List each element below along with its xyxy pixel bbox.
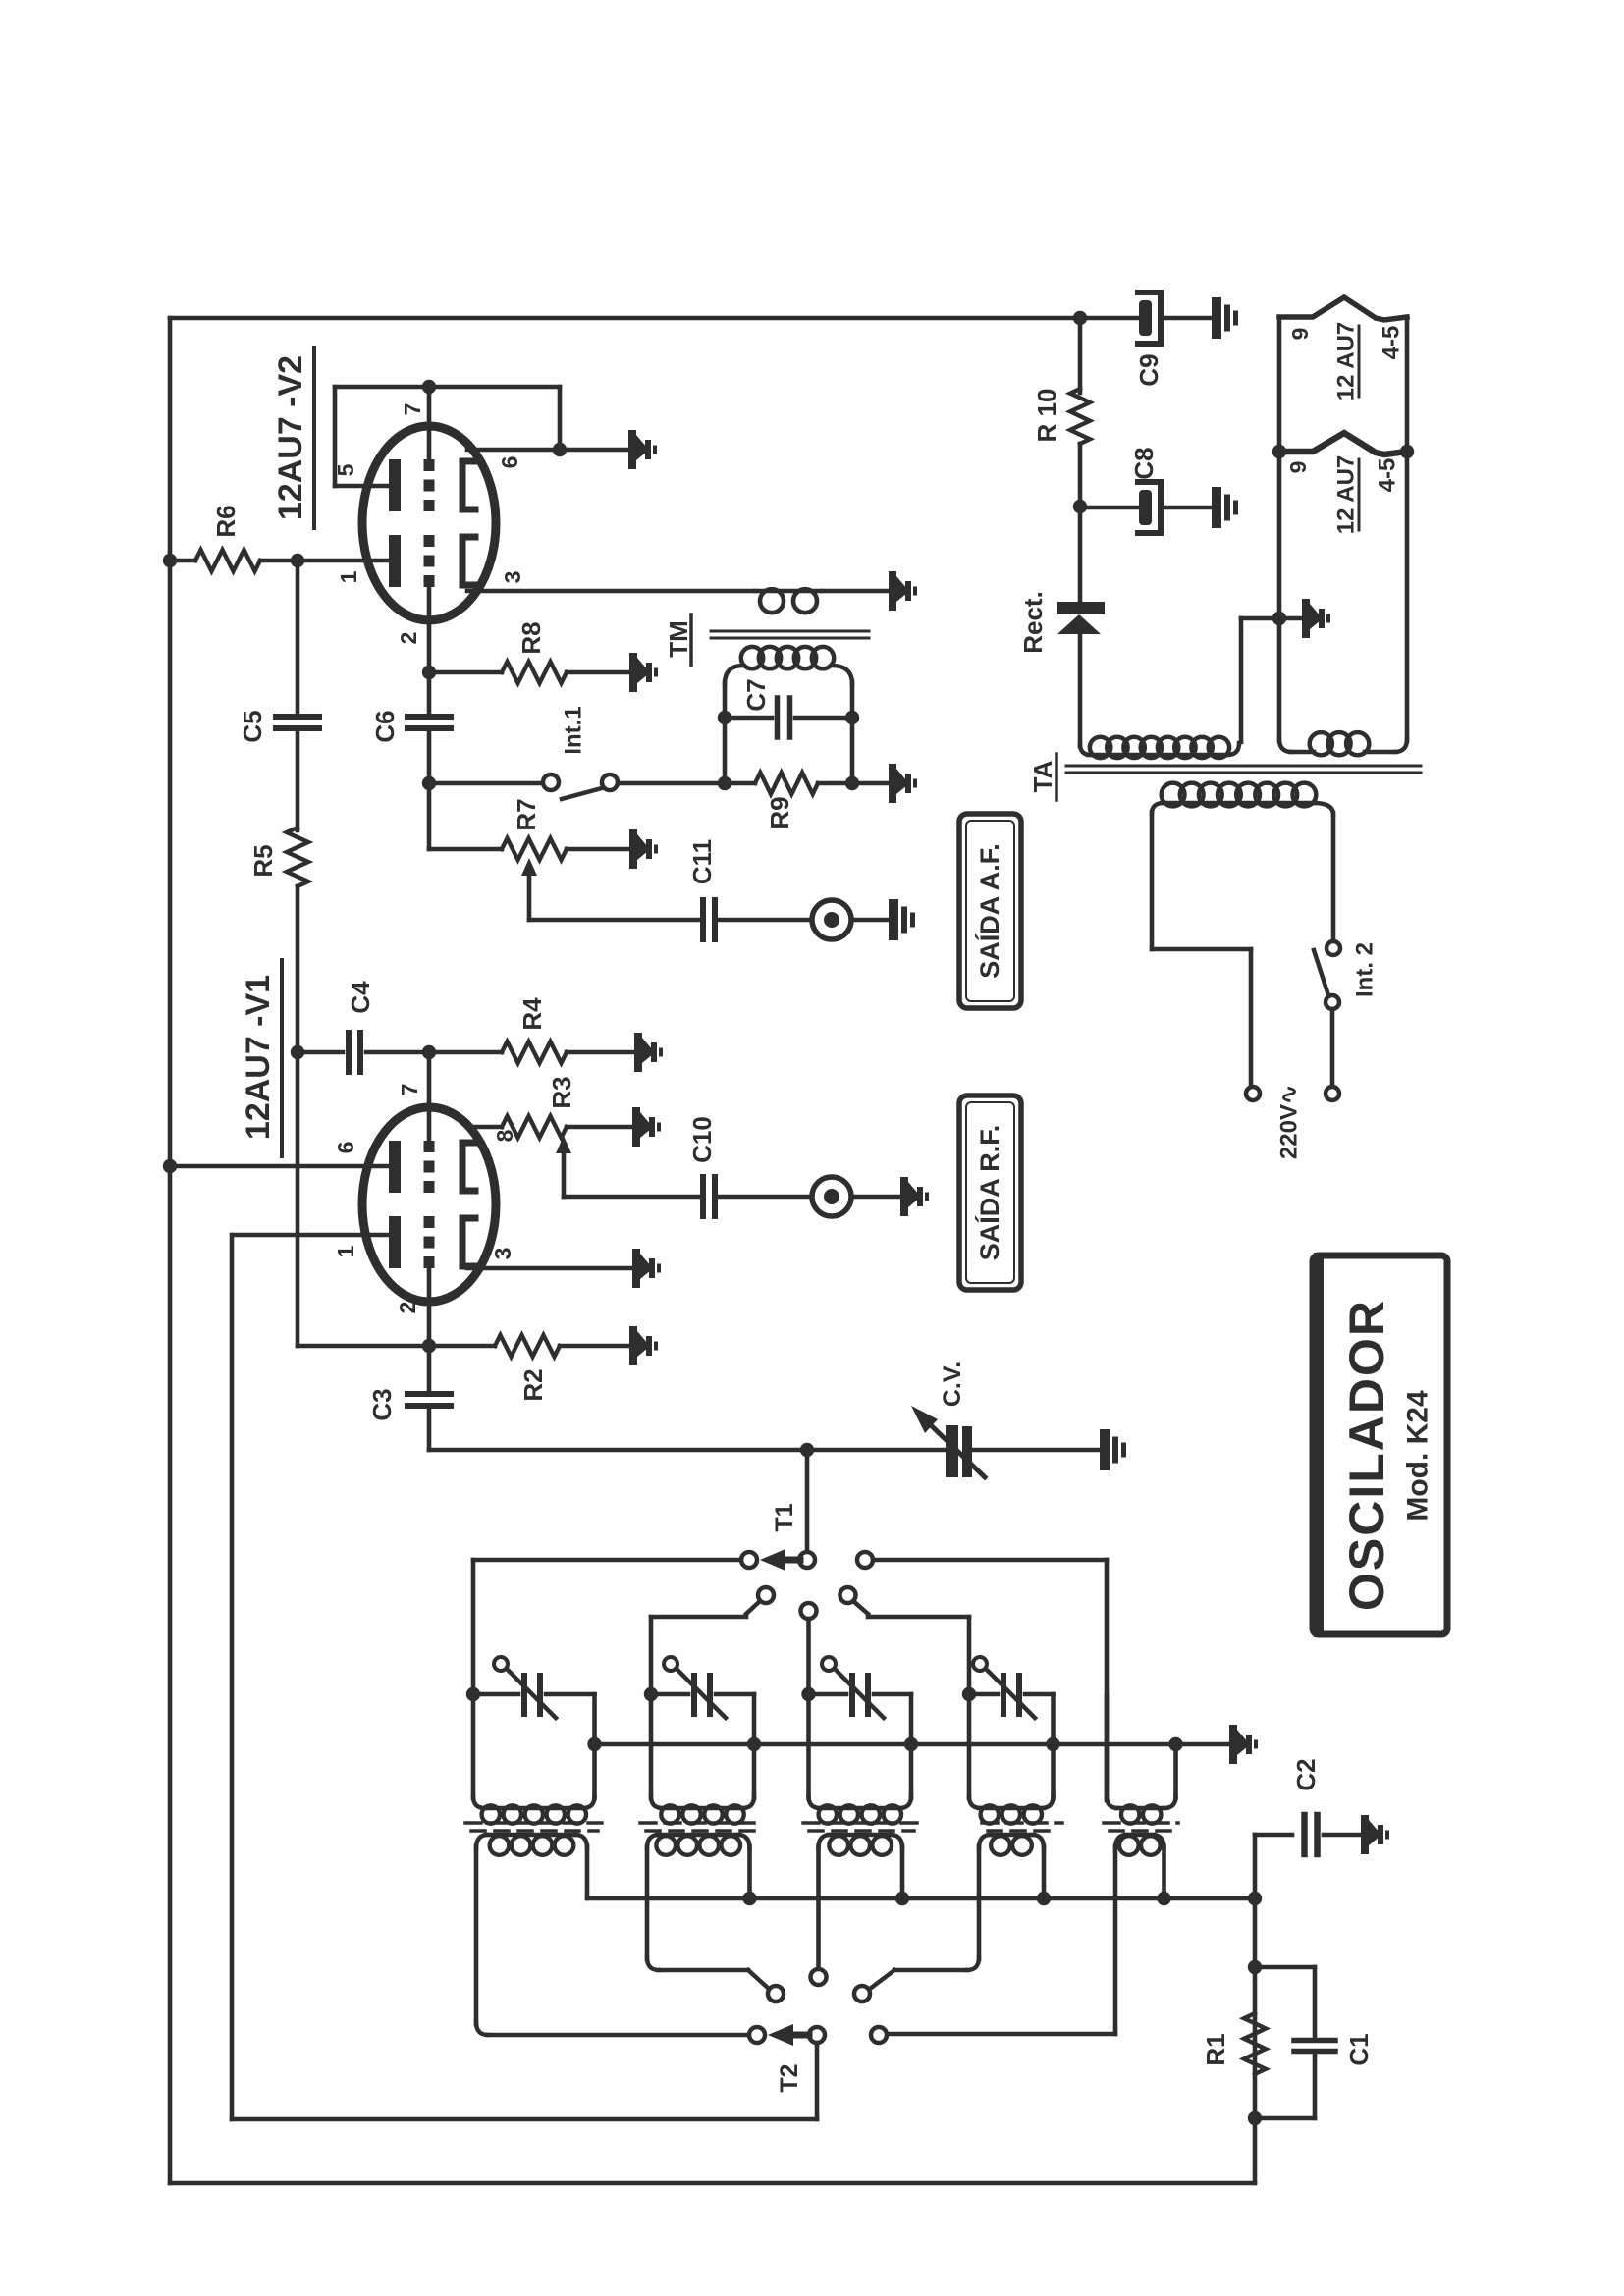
svg-text:C9: C9: [1134, 353, 1164, 386]
svg-text:2: 2: [396, 632, 421, 645]
svg-text:12AU7 -V1: 12AU7 -V1: [240, 975, 277, 1140]
svg-text:R6: R6: [211, 505, 241, 537]
svg-text:2: 2: [395, 1302, 420, 1314]
svg-text:12 AU7: 12 AU7: [1333, 455, 1360, 534]
svg-text:C11: C11: [687, 839, 717, 884]
svg-text:C1: C1: [1344, 2033, 1374, 2065]
svg-text:Mod. K24: Mod. K24: [1402, 1390, 1435, 1522]
svg-text:1: 1: [336, 570, 361, 583]
svg-text:9: 9: [1285, 461, 1311, 474]
svg-text:R2: R2: [518, 1368, 548, 1401]
svg-text:220V∿: 220V∿: [1276, 1085, 1303, 1159]
svg-text:R1: R1: [1201, 2033, 1230, 2065]
svg-text:OSCILADOR: OSCILADOR: [1339, 1299, 1394, 1611]
svg-text:R3: R3: [547, 1076, 576, 1108]
svg-text:Int. 2: Int. 2: [1352, 942, 1379, 997]
svg-text:R 10: R 10: [1032, 389, 1061, 443]
svg-text:6: 6: [497, 456, 522, 469]
svg-text:R7: R7: [512, 798, 541, 830]
svg-text:C7: C7: [741, 678, 771, 711]
svg-text:C2: C2: [1291, 1758, 1321, 1790]
svg-text:R5: R5: [248, 844, 278, 877]
svg-text:1: 1: [333, 1245, 358, 1257]
svg-text:T2: T2: [776, 2063, 803, 2092]
svg-text:R9: R9: [765, 796, 794, 828]
svg-text:TM: TM: [664, 620, 693, 658]
svg-text:C5: C5: [238, 710, 267, 742]
svg-text:TA: TA: [1028, 760, 1057, 792]
svg-text:12 AU7: 12 AU7: [1333, 322, 1360, 400]
svg-text:R8: R8: [516, 621, 546, 654]
svg-text:7: 7: [397, 1084, 422, 1096]
svg-text:R4: R4: [517, 997, 547, 1031]
svg-text:4-5: 4-5: [1379, 326, 1405, 360]
svg-text:12AU7 -V2: 12AU7 -V2: [272, 355, 309, 520]
svg-text:T1: T1: [771, 1503, 798, 1531]
svg-text:6: 6: [333, 1142, 358, 1154]
svg-text:Rect.: Rect.: [1018, 591, 1048, 654]
svg-text:C.V.: C.V.: [939, 1362, 966, 1407]
svg-text:C8: C8: [1129, 447, 1159, 479]
svg-text:3: 3: [490, 1248, 515, 1260]
svg-text:SAÍDA A.F.: SAÍDA A.F.: [974, 843, 1004, 979]
svg-text:C3: C3: [367, 1388, 397, 1420]
svg-text:9: 9: [1287, 328, 1313, 341]
svg-text:SAÍDA R.F.: SAÍDA R.F.: [974, 1125, 1004, 1261]
svg-text:C10: C10: [687, 1116, 717, 1163]
svg-text:Int.1: Int.1: [561, 706, 587, 754]
svg-text:5: 5: [333, 463, 358, 476]
svg-text:3: 3: [500, 571, 525, 584]
svg-text:4-5: 4-5: [1375, 458, 1401, 493]
svg-text:7: 7: [400, 403, 425, 416]
svg-text:C6: C6: [370, 710, 400, 742]
svg-text:C4: C4: [346, 981, 375, 1014]
